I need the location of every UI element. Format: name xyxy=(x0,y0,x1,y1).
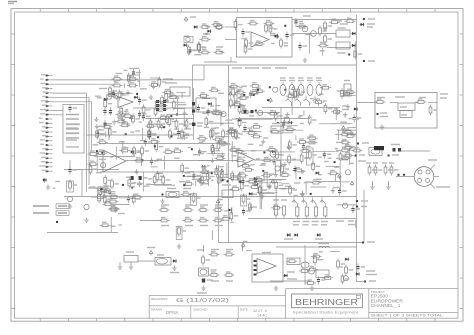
mid right gap power rail xyxy=(199,178,203,183)
output misc resistor xyxy=(247,179,258,183)
bias parts value label xyxy=(103,185,109,187)
preamp center2 resistor xyxy=(211,128,219,139)
mid stage value label xyxy=(201,166,207,168)
preamp center resistor xyxy=(149,82,160,86)
servo out wire xyxy=(246,250,252,252)
vas lower wire xyxy=(273,154,282,156)
preamp A ground xyxy=(126,121,130,126)
vas lower wire xyxy=(280,151,296,153)
vas lower resistor xyxy=(276,150,284,161)
preamp center2 resistor xyxy=(229,84,240,88)
input filter rows value label xyxy=(113,80,117,82)
zobel R pair 2 xyxy=(382,163,399,189)
mid right gap node xyxy=(227,180,229,182)
servo B wire xyxy=(111,203,129,205)
resistor R3B xyxy=(185,119,193,130)
mid right gap value label xyxy=(211,151,215,153)
vas upper capacitor xyxy=(282,120,291,128)
vas upper value label xyxy=(239,87,242,89)
decoupling capacitor row xyxy=(280,78,322,96)
resistor R53 xyxy=(200,37,211,41)
vas lower value label xyxy=(324,161,329,163)
node xyxy=(357,143,359,145)
svg-text:BEHRINGER: BEHRINGER xyxy=(295,298,358,307)
value label xyxy=(284,238,293,240)
resistor R1A xyxy=(112,74,123,81)
preamp center wire xyxy=(183,134,185,140)
mid stage value label xyxy=(174,157,179,159)
servo B value label xyxy=(143,185,150,187)
wire xyxy=(203,65,205,80)
resistor R31 xyxy=(281,164,289,175)
top input capacitor xyxy=(188,47,197,55)
value label xyxy=(369,280,376,282)
preamp center2 value label xyxy=(228,86,234,88)
vas upper resistor xyxy=(324,103,332,114)
mid stage node xyxy=(183,184,185,186)
servo B value label xyxy=(122,146,127,148)
vas upper node xyxy=(243,94,245,96)
servo B resistor xyxy=(88,151,99,155)
vas lower power rail xyxy=(350,181,354,186)
preamp center value label xyxy=(177,137,184,139)
capacitor C46 xyxy=(356,264,365,272)
value label xyxy=(367,23,375,25)
mid stage wire xyxy=(216,165,218,170)
input filter rows resistor xyxy=(127,73,135,84)
preamp center wire xyxy=(183,108,185,126)
preamp center2 power rail xyxy=(228,92,232,97)
preamp center2 value label xyxy=(234,101,240,103)
mid right gap value label xyxy=(208,177,211,179)
vas upper node xyxy=(253,94,255,96)
preamp center value label xyxy=(175,97,179,99)
driver top resistor xyxy=(329,19,340,23)
node xyxy=(162,194,164,196)
preamp A capacitor xyxy=(138,110,147,118)
relay coil RL1B xyxy=(336,42,350,53)
vas lower resistor xyxy=(288,139,296,150)
thermal TH200 xyxy=(395,97,415,111)
preamp A capacitor xyxy=(138,97,147,105)
mid stage resistor xyxy=(217,140,225,151)
preamp A value label xyxy=(97,97,102,99)
vas lower wire xyxy=(263,172,265,181)
vas lower value label xyxy=(301,172,304,174)
preamp A ground xyxy=(126,90,130,95)
driver top resistor xyxy=(319,25,327,36)
preamp center resistor xyxy=(154,106,162,117)
preamp center2 resistor xyxy=(232,128,240,139)
mid stage wire xyxy=(183,176,208,178)
vas lower node xyxy=(239,181,241,183)
capacitor C52 xyxy=(131,176,134,180)
servo out2 resistor xyxy=(305,280,316,284)
wire xyxy=(363,190,365,243)
servo B resistor xyxy=(111,178,119,189)
preamp center2 capacitor xyxy=(207,108,216,116)
resistor R32 xyxy=(254,177,265,181)
resistor R101 xyxy=(191,193,201,206)
mid stage power rail xyxy=(197,178,201,183)
resistor R82 xyxy=(133,146,141,157)
ground xyxy=(274,286,278,291)
preamp center2 capacitor xyxy=(197,105,206,113)
wire xyxy=(192,65,194,115)
top input diode xyxy=(183,44,188,47)
input filter rows value label xyxy=(123,69,127,71)
vas lower value label xyxy=(285,185,291,187)
wire xyxy=(357,102,378,104)
resistor R58 xyxy=(264,21,275,25)
vas lower value label xyxy=(335,148,338,150)
resistor R61 xyxy=(324,21,332,32)
power transistor Q6 xyxy=(292,198,300,225)
mid stage value label xyxy=(202,140,205,142)
vas lower value label xyxy=(336,150,339,152)
value label xyxy=(197,122,203,124)
ground xyxy=(303,58,307,63)
resistor R40 xyxy=(176,226,186,240)
preamp A value label xyxy=(98,129,104,131)
vas upper resistor xyxy=(331,109,342,113)
wire xyxy=(145,118,194,120)
mid stage value label xyxy=(202,183,208,185)
mid stage capacitor xyxy=(144,138,153,146)
wire xyxy=(64,169,119,171)
diode D1 xyxy=(193,25,198,28)
output misc wire xyxy=(261,181,263,201)
vas lower value label xyxy=(328,153,331,155)
limiter value label xyxy=(284,45,288,47)
vas lower ground xyxy=(267,184,271,189)
vas upper wire xyxy=(284,132,293,134)
vas lower value label xyxy=(248,143,254,145)
preamp center resistor xyxy=(168,116,176,127)
top input value label xyxy=(205,26,209,28)
vas upper capacitor xyxy=(353,114,362,122)
wire xyxy=(204,61,237,63)
wire xyxy=(81,170,83,197)
output misc wire xyxy=(279,187,295,189)
power flag +15V xyxy=(147,248,155,256)
preamp A ground xyxy=(121,117,125,122)
relay RL200 xyxy=(400,111,412,118)
vas lower resistor xyxy=(310,180,321,184)
driver top resistor xyxy=(345,18,356,22)
preamp center wire xyxy=(157,101,185,103)
vas upper node xyxy=(284,89,286,91)
value label xyxy=(367,241,375,243)
vas lower wire xyxy=(249,182,281,184)
vas upper value label xyxy=(245,96,250,98)
preamp A capacitor xyxy=(142,113,151,121)
servo B value label xyxy=(102,195,108,197)
vas lower capacitor xyxy=(338,188,347,196)
preamp center wire xyxy=(181,93,183,98)
svg-text:CHANNEL_.1: CHANNEL_.1 xyxy=(371,303,401,309)
wire xyxy=(236,118,310,120)
mid stage value label xyxy=(156,172,163,174)
preamp center transistor xyxy=(155,100,160,105)
chain right value label xyxy=(218,199,222,201)
vas upper value label xyxy=(340,121,347,123)
vas lower resistor xyxy=(262,157,273,161)
node xyxy=(403,174,405,176)
vas lower ground xyxy=(260,194,264,199)
resistor R100A xyxy=(375,98,386,104)
vas upper wire xyxy=(279,129,303,131)
bias parts value label xyxy=(118,213,125,215)
power transistor Q7 xyxy=(302,198,310,225)
mid stage wire xyxy=(154,184,175,186)
behringer logo r-mark xyxy=(356,295,360,298)
bias parts ground xyxy=(113,207,117,212)
vas lower resistor xyxy=(258,185,266,196)
mid stage node xyxy=(154,145,156,147)
input jack xyxy=(184,37,193,43)
vas lower resistor xyxy=(228,147,239,151)
vas lower capacitor xyxy=(272,157,281,165)
mid stage resistor xyxy=(181,163,189,174)
output misc resistor xyxy=(249,202,257,213)
value label xyxy=(440,97,447,99)
servo out2 resistor xyxy=(311,254,322,258)
preamp A capacitor xyxy=(96,130,105,138)
bias parts resistor xyxy=(98,192,106,203)
preamp center wire xyxy=(174,108,185,110)
vas lower capacitor xyxy=(302,143,311,151)
driver top wire xyxy=(296,26,307,28)
mid stage value label xyxy=(219,166,224,168)
svg-text:DATE: DATE xyxy=(240,307,248,311)
behringer logo box xyxy=(292,294,363,308)
driver top wire xyxy=(327,47,351,49)
resistor R83 xyxy=(141,146,149,157)
resistor R1B xyxy=(112,83,123,87)
vas upper value label xyxy=(337,90,343,92)
vas lower value label xyxy=(334,166,339,168)
node xyxy=(56,221,58,223)
vas lower wire xyxy=(310,186,326,188)
preamp center2 resistor xyxy=(232,86,240,97)
output bus wire xyxy=(248,218,356,220)
preamp A node xyxy=(125,133,127,135)
vas lower resistor xyxy=(288,154,296,165)
vas lower ground xyxy=(261,139,265,144)
vas upper resistor xyxy=(345,89,356,93)
value label xyxy=(362,142,369,144)
chain right value label xyxy=(218,206,222,208)
capacitor C53 xyxy=(139,176,142,180)
preamp center2 resistor xyxy=(222,129,230,140)
vas lower wire xyxy=(281,183,289,185)
vas upper value label xyxy=(300,122,304,124)
ground xyxy=(172,266,176,271)
capacitor C44 xyxy=(351,206,360,214)
value label xyxy=(391,144,400,146)
vas upper wire xyxy=(347,127,356,129)
vas upper wire xyxy=(295,135,297,140)
limiter value label xyxy=(241,38,246,40)
resistor R2A xyxy=(149,119,157,130)
mid stage ground xyxy=(210,158,214,163)
diode D17 xyxy=(228,208,233,211)
driver top node xyxy=(348,54,350,56)
vas lower node xyxy=(334,161,336,163)
value label xyxy=(287,271,295,273)
mid stage value label xyxy=(202,167,206,169)
vas lower wire xyxy=(305,182,307,195)
output misc ground xyxy=(248,205,252,210)
servo B wire xyxy=(115,147,117,160)
bias parts resistor xyxy=(109,206,120,210)
mid stage resistor xyxy=(220,172,228,183)
preamp center2 transistor xyxy=(221,112,226,117)
sheet corner label text xyxy=(8,2,17,4)
input resistor stack xyxy=(254,260,257,276)
resistor R94 xyxy=(224,272,235,281)
vas lower value label xyxy=(243,156,246,158)
ground xyxy=(380,125,384,130)
wire xyxy=(219,242,365,244)
preamp center resistor xyxy=(161,95,169,106)
vas upper resistor xyxy=(274,110,282,121)
mid right gap value label xyxy=(199,153,204,155)
vas lower value label xyxy=(316,178,322,180)
vas upper resistor xyxy=(250,83,261,87)
bias parts value label xyxy=(111,225,116,227)
value label xyxy=(66,132,79,134)
mid stage resistor xyxy=(153,174,161,185)
preamp center2 value label xyxy=(215,127,219,129)
vas lower resistor xyxy=(267,147,278,151)
mid stage wire xyxy=(220,142,226,144)
preamp center2 wire xyxy=(219,138,221,140)
inductor L10A xyxy=(318,244,329,249)
vas lower resistor xyxy=(234,149,245,153)
preamp A value label xyxy=(135,130,140,132)
output right wire xyxy=(355,220,357,228)
vas lower wire xyxy=(274,162,276,173)
preamp center wire xyxy=(155,118,172,120)
resistor R70 xyxy=(344,81,351,97)
preamp center2 wire xyxy=(229,86,231,96)
vas lower resistor xyxy=(259,185,267,196)
servo B resistor xyxy=(134,158,145,162)
driver top wire xyxy=(308,33,310,54)
preamp center2 resistor xyxy=(211,110,222,114)
resistor R3A xyxy=(175,119,183,130)
preamp center resistor xyxy=(148,129,156,140)
node xyxy=(388,155,390,157)
preamp A diode xyxy=(103,98,108,101)
servo out2 value label xyxy=(319,251,323,253)
output misc resistor xyxy=(275,180,283,191)
top input diode xyxy=(207,30,212,33)
mid stage value label xyxy=(188,147,191,149)
capacitor C104 xyxy=(398,148,401,152)
preamp center wire xyxy=(176,99,178,116)
value label xyxy=(368,18,375,20)
vas upper capacitor xyxy=(243,125,252,133)
top input resistor xyxy=(211,22,222,26)
mid stage node xyxy=(183,175,185,177)
servo out2 wire xyxy=(317,258,324,260)
bias parts resistor xyxy=(98,188,109,192)
servo B value label xyxy=(93,144,99,146)
aux small wire xyxy=(121,79,140,81)
preamp center value label xyxy=(156,124,161,126)
mid stage wire xyxy=(163,156,165,169)
diode D15 xyxy=(172,259,177,262)
mid right gap wire xyxy=(226,163,228,178)
preamp center2 value label xyxy=(210,105,214,107)
vas lower value label xyxy=(256,158,260,160)
preamp center2 resistor xyxy=(209,129,217,140)
vas lower resistor xyxy=(328,170,339,174)
value label xyxy=(288,159,294,161)
capacitor C50 xyxy=(103,108,106,116)
chain right value label xyxy=(224,210,227,212)
value label xyxy=(66,123,80,125)
limiter node xyxy=(284,25,286,27)
vas upper resistor xyxy=(240,109,251,113)
diode D20 xyxy=(355,272,360,275)
module box mute xyxy=(196,98,216,112)
preamp A value label xyxy=(130,131,134,133)
wire xyxy=(88,97,90,185)
diode D7 xyxy=(360,23,365,26)
wire xyxy=(396,176,414,178)
preamp A node xyxy=(136,93,138,95)
diode D12 xyxy=(351,44,356,47)
servo B wire xyxy=(142,172,144,192)
node xyxy=(299,177,301,179)
preamp center2 resistor xyxy=(205,116,213,127)
mid stage value label xyxy=(200,171,206,173)
wire xyxy=(47,232,118,234)
vas lower value label xyxy=(269,173,274,175)
module box top wire xyxy=(193,64,356,66)
title block frame xyxy=(149,289,458,319)
node xyxy=(355,155,357,157)
servo out2 wire xyxy=(330,250,340,252)
mid right gap wire xyxy=(207,153,225,155)
preamp center2 resistor xyxy=(234,92,242,103)
module box protection xyxy=(375,93,437,129)
input filter rows resistor xyxy=(158,77,166,88)
preamp A capacitor xyxy=(112,90,121,98)
output misc wire xyxy=(261,189,263,210)
vas upper wire xyxy=(351,134,356,136)
preamp A resistor xyxy=(106,92,117,96)
mid stage resistor xyxy=(172,148,183,152)
value label xyxy=(99,88,107,90)
vas lower resistor xyxy=(229,176,240,180)
preamp A value label xyxy=(98,125,102,127)
mid stage value label xyxy=(211,179,214,181)
servo B resistor xyxy=(119,148,130,152)
resistor R75 xyxy=(345,265,353,276)
node xyxy=(362,242,364,244)
vas upper wire xyxy=(238,118,272,120)
mid stage power rail xyxy=(220,169,224,174)
node -15V xyxy=(363,60,365,62)
limiter value label xyxy=(271,43,275,45)
vas upper value label xyxy=(242,105,246,107)
feedback resistor chain 2 xyxy=(159,218,224,226)
